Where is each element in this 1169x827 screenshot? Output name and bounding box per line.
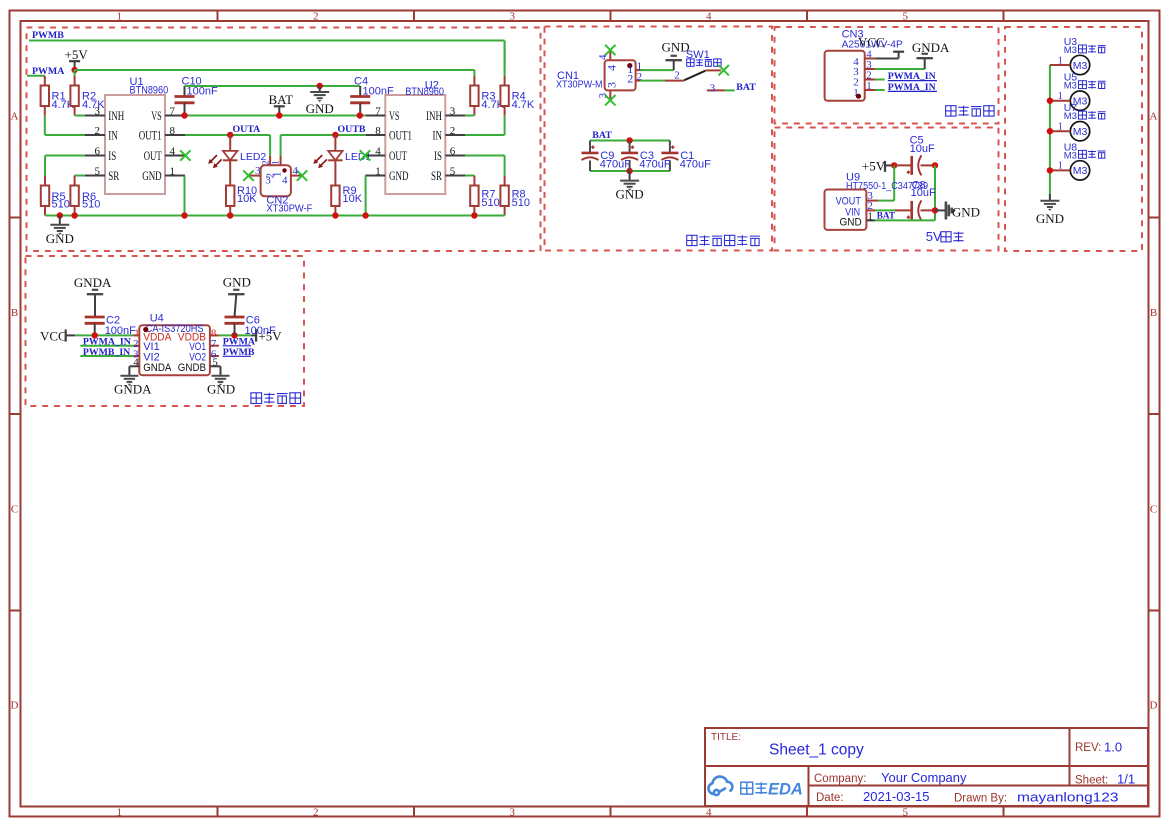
- svg-text:+5V: +5V: [65, 47, 89, 62]
- U9 pin 1 GND: [866, 219, 875, 221]
- chip U4 CA-IS3720HS: [139, 325, 210, 375]
- wire U2 SR to R7: [465, 175, 474, 177]
- svg-text:IS: IS: [434, 149, 442, 163]
- wire R1 to IN: [45, 134, 85, 136]
- svg-text:3: 3: [95, 105, 101, 117]
- U4 pin 6 VO2: [210, 355, 219, 357]
- svg-text:GND: GND: [616, 187, 644, 202]
- U1 pin 6 IS: [85, 155, 105, 157]
- svg-text:M3: M3: [1064, 81, 1077, 92]
- chip U2 BTN8960 body: [385, 95, 445, 194]
- resistor R5: [41, 186, 49, 207]
- svg-text:SR: SR: [108, 169, 119, 183]
- svg-text:GND: GND: [142, 169, 162, 183]
- svg-text:1: 1: [1058, 91, 1063, 102]
- wire R4 to U2 IN: [465, 134, 504, 136]
- svg-text:TITLE:: TITLE:: [711, 732, 741, 743]
- svg-text:1/1: 1/1: [1117, 772, 1135, 787]
- title block frame: [705, 728, 1148, 806]
- svg-text:GND: GND: [223, 275, 251, 290]
- svg-text:D: D: [11, 700, 19, 712]
- svg-text:470uF: 470uF: [600, 159, 631, 171]
- CN2 pin 3: [250, 175, 261, 177]
- svg-text:GNDB: GNDB: [178, 362, 206, 374]
- section box: screw holes: [1005, 27, 1142, 251]
- U4 pin 2 VI1: [80, 345, 134, 347]
- svg-text:+5V: +5V: [862, 159, 886, 174]
- svg-text:C: C: [11, 504, 18, 516]
- svg-text:GNDA: GNDA: [114, 382, 152, 397]
- regulator U9: [825, 190, 867, 230]
- section box: motor driver: [27, 28, 541, 252]
- LED1: [334, 135, 336, 151]
- op-chip U1 BTN8960 body: [105, 95, 165, 194]
- svg-text:BTN8960: BTN8960: [130, 85, 169, 97]
- capacitor C2: [85, 316, 105, 319]
- svg-text:6: 6: [450, 145, 456, 157]
- resistor R6: [70, 186, 78, 207]
- svg-text:2: 2: [313, 11, 319, 23]
- svg-text:XT30PW-M: XT30PW-M: [556, 80, 603, 91]
- svg-text:OUTA: OUTA: [233, 124, 262, 135]
- no-connect X U1 OUT: [180, 150, 190, 160]
- svg-text:470uF: 470uF: [680, 159, 711, 171]
- svg-text:4: 4: [282, 175, 288, 187]
- connector CN1 XT30PW-M: [605, 60, 636, 90]
- svg-text:4: 4: [133, 356, 139, 368]
- ground symbol (screw holes): [1049, 194, 1051, 201]
- wire R3 to U2 INH: [465, 115, 474, 117]
- svg-text:BAT: BAT: [269, 92, 294, 107]
- U2 pin 7 VS: [365, 115, 385, 117]
- capacitor C10: [184, 86, 186, 97]
- svg-text:B: B: [1150, 307, 1157, 319]
- svg-text:VS: VS: [389, 109, 400, 123]
- ground symbol under caps: [629, 171, 631, 181]
- svg-text:100nF: 100nF: [187, 86, 218, 98]
- svg-text:100nF: 100nF: [245, 325, 276, 337]
- svg-text:Sheet_1 copy: Sheet_1 copy: [769, 742, 864, 759]
- svg-text:GNDA: GNDA: [143, 362, 172, 374]
- wire PWMB down to R4: [504, 41, 506, 71]
- U4 pin 1 VDDA: [134, 334, 140, 336]
- wire OUTB: [281, 134, 365, 136]
- svg-text:A: A: [1150, 111, 1158, 123]
- svg-text:GND: GND: [840, 216, 862, 228]
- U2 pin 1 GND: [365, 175, 385, 177]
- svg-text:VCC: VCC: [40, 328, 67, 343]
- svg-text:4: 4: [375, 145, 381, 157]
- svg-text:5: 5: [212, 356, 218, 368]
- no-connect X SW1: [719, 65, 729, 75]
- svg-text:EDA: EDA: [768, 781, 803, 799]
- svg-text:4: 4: [706, 807, 712, 819]
- svg-text:C: C: [1150, 504, 1157, 516]
- U2 pin 5 SR: [445, 175, 465, 177]
- svg-text:GND: GND: [952, 204, 980, 219]
- svg-text:10K: 10K: [237, 193, 257, 205]
- ground symbol bottom left: [59, 216, 61, 225]
- svg-text:1: 1: [117, 807, 123, 819]
- resistor R3: [473, 70, 475, 76]
- svg-text:5: 5: [903, 11, 909, 23]
- U4 pin 8 VDDB: [210, 334, 219, 336]
- section box: 5V regulator: [775, 128, 999, 251]
- svg-text:GND: GND: [306, 101, 334, 116]
- LED2: [229, 135, 231, 151]
- resistor R4: [504, 41, 506, 77]
- svg-text:3: 3: [710, 83, 716, 95]
- wire GND bus bottom: [45, 215, 505, 217]
- U1 pin 4 OUT: [165, 155, 185, 157]
- svg-text:6: 6: [95, 145, 101, 157]
- wire U2 GND down: [365, 176, 367, 216]
- U2 pin 4 OUT: [365, 155, 385, 157]
- svg-text:BAT: BAT: [736, 82, 756, 93]
- CN3 pin 2: [865, 79, 876, 81]
- CN1 pin 2 wire to SW1: [636, 80, 641, 82]
- capacitor C6: [225, 316, 245, 319]
- svg-text:PWMB_IN: PWMB_IN: [83, 347, 130, 358]
- svg-text:1: 1: [866, 81, 871, 92]
- svg-text:BTN8960: BTN8960: [405, 86, 444, 98]
- svg-text:5V: 5V: [926, 229, 942, 244]
- svg-text:OUT1: OUT1: [139, 129, 162, 143]
- wire cap bank top: [590, 140, 670, 142]
- CN1 pin-1 dot: [627, 63, 632, 68]
- svg-text:3: 3: [597, 93, 609, 99]
- svg-text:2: 2: [313, 807, 319, 819]
- U9 pin 2 VIN: [866, 209, 875, 211]
- svg-text:A: A: [11, 111, 19, 123]
- svg-text:mayanlong123: mayanlong123: [1017, 790, 1119, 805]
- wire VDDB to +5V: [219, 334, 252, 336]
- SW1 lever: [684, 71, 705, 81]
- wire +5V horizontal: [75, 69, 475, 71]
- connector CN3: [825, 51, 865, 101]
- svg-text:1: 1: [271, 160, 281, 165]
- resistor R2: [74, 70, 76, 76]
- ground symbol (top middle): [319, 86, 321, 92]
- svg-text:2021-03-15: 2021-03-15: [863, 789, 930, 804]
- svg-text:1: 1: [1058, 122, 1063, 133]
- svg-text:2: 2: [95, 125, 101, 137]
- U1 pin 8 OUT1: [165, 134, 185, 136]
- wire U1 GND down: [184, 176, 186, 216]
- wire U2 IS to R8: [465, 155, 504, 157]
- U2 pin 2 IN: [445, 134, 465, 136]
- wire VDDA: [75, 334, 133, 336]
- U1 pin 1 GND: [165, 175, 185, 177]
- svg-text:IN: IN: [433, 129, 443, 143]
- svg-text:Your Company: Your Company: [881, 770, 967, 785]
- U1 pin 2 IN: [85, 134, 105, 136]
- svg-text:3: 3: [265, 175, 271, 187]
- resistor R9: [331, 186, 339, 207]
- CN2 pin 2: [269, 156, 271, 166]
- svg-text:4.7K: 4.7K: [512, 99, 535, 111]
- U4 pin 5 GNDB: [210, 365, 221, 367]
- capacitor C3 470uF: [629, 141, 631, 153]
- svg-text:4: 4: [706, 11, 712, 23]
- svg-text:2: 2: [674, 70, 680, 82]
- ruler tick marks: [217, 11, 219, 22]
- svg-text:1.0: 1.0: [1104, 740, 1122, 755]
- logo LCEDA: [708, 777, 732, 796]
- svg-text:1: 1: [375, 165, 381, 177]
- svg-text:B: B: [11, 307, 18, 319]
- CN3 pin-1 dot: [856, 94, 861, 99]
- svg-text:M3: M3: [1073, 60, 1088, 72]
- svg-text:3: 3: [510, 807, 516, 819]
- svg-text:Date:: Date:: [816, 792, 844, 804]
- U4 pin 3 VI2: [80, 355, 134, 357]
- svg-text:8: 8: [170, 125, 176, 137]
- section box: signal input: [775, 27, 999, 124]
- wire PWMA: [27, 75, 45, 77]
- svg-text:IN: IN: [108, 129, 118, 143]
- CN1 pin 4 (top): [609, 51, 611, 60]
- svg-text:4: 4: [292, 165, 298, 177]
- svg-text:1: 1: [170, 165, 176, 177]
- U4 pin 7 VO1: [210, 345, 219, 347]
- svg-text:1: 1: [117, 11, 123, 23]
- svg-text:INH: INH: [108, 109, 124, 123]
- capacitor C5: [894, 164, 911, 166]
- svg-text:10uF: 10uF: [911, 187, 936, 199]
- svg-text:2: 2: [261, 160, 271, 165]
- wire +5V node: [891, 162, 897, 168]
- svg-text:470uF: 470uF: [639, 159, 670, 171]
- svg-text:5: 5: [95, 165, 101, 177]
- svg-text:BAT: BAT: [592, 130, 612, 141]
- svg-text:1: 1: [867, 210, 873, 222]
- svg-text:GND: GND: [1036, 211, 1064, 226]
- svg-text:GNDA: GNDA: [74, 275, 112, 290]
- svg-text:Drawn By:: Drawn By:: [954, 793, 1007, 805]
- power flag +5V (isolation): [252, 334, 257, 336]
- svg-text:4: 4: [605, 65, 619, 71]
- svg-text:VCC: VCC: [858, 35, 885, 50]
- SW1 pin 3 to BAT: [707, 89, 725, 91]
- svg-text:SR: SR: [431, 169, 442, 183]
- svg-text:M3: M3: [1064, 150, 1077, 161]
- U4 pin 4 GNDA: [129, 365, 139, 367]
- svg-text:1: 1: [1058, 55, 1063, 66]
- svg-text:510: 510: [481, 197, 499, 209]
- svg-text:M3: M3: [1064, 111, 1077, 122]
- wire U1 SR to R6: [75, 175, 85, 177]
- resistor R7: [470, 186, 478, 207]
- svg-text:GND: GND: [46, 231, 74, 246]
- U2 pin 6 IS: [445, 155, 465, 157]
- svg-text:2: 2: [866, 71, 871, 82]
- svg-text:2: 2: [637, 71, 643, 83]
- CN1 pin 1 wire to GND: [636, 69, 641, 71]
- capacitor C9 470uF: [589, 141, 591, 153]
- svg-text:7: 7: [375, 105, 381, 117]
- U2 pin 3 INH: [445, 115, 465, 117]
- svg-text:GNDA: GNDA: [912, 40, 950, 55]
- capacitor C1 470uF: [669, 141, 671, 153]
- svg-text:510: 510: [82, 199, 100, 211]
- svg-text:7: 7: [170, 105, 176, 117]
- U1 pin 3 INH: [85, 115, 105, 117]
- svg-text:VS: VS: [151, 109, 162, 123]
- resistor R8: [500, 186, 508, 207]
- wire cap bank bottom: [590, 170, 670, 172]
- svg-text:REV:: REV:: [1075, 742, 1101, 754]
- svg-text:3: 3: [255, 165, 261, 177]
- svg-text:BAT: BAT: [877, 212, 896, 222]
- junction +5V node: [71, 67, 77, 73]
- svg-text:3: 3: [605, 82, 619, 88]
- U1 pin 5 SR: [85, 175, 105, 177]
- CN2 pin 1: [280, 156, 282, 166]
- svg-text:4: 4: [866, 50, 872, 61]
- resistor R1: [44, 76, 46, 86]
- U9 pin 3 VOUT: [866, 200, 878, 202]
- connector CN2 XT30PW-F: [261, 165, 291, 196]
- section label signal input: [946, 106, 995, 116]
- svg-text:OUTB: OUTB: [338, 124, 366, 135]
- wire right vertical (5V reg): [934, 165, 936, 220]
- svg-text:4: 4: [597, 54, 609, 60]
- svg-text:3: 3: [866, 60, 871, 71]
- svg-text:4: 4: [170, 145, 176, 157]
- svg-text:510: 510: [52, 199, 70, 211]
- wire screw-hole gnd vertical: [1049, 65, 1051, 194]
- wire R2 to INH: [75, 115, 85, 117]
- section box: power input: [545, 27, 773, 251]
- svg-text:5: 5: [450, 165, 456, 177]
- svg-text:OUT: OUT: [144, 149, 162, 163]
- svg-text:PWMB: PWMB: [32, 30, 64, 41]
- svg-text:2: 2: [450, 125, 456, 137]
- wire VS net: [185, 115, 366, 117]
- svg-text:OUT: OUT: [389, 149, 407, 163]
- svg-text:3: 3: [510, 11, 516, 23]
- svg-text:Sheet:: Sheet:: [1075, 775, 1108, 787]
- svg-text:3: 3: [450, 105, 456, 117]
- svg-text:10uF: 10uF: [910, 143, 935, 155]
- svg-text:D: D: [1150, 700, 1158, 712]
- svg-text:INH: INH: [426, 109, 442, 123]
- svg-text:1: 1: [1058, 161, 1063, 172]
- CN3 pin 4: [865, 58, 876, 60]
- svg-text:IS: IS: [108, 149, 116, 163]
- junction gnd-top: [317, 83, 323, 89]
- no-connect X U2 OUT: [360, 150, 370, 160]
- svg-text:M3: M3: [1073, 165, 1088, 177]
- wire PWMB horizontal: [29, 40, 505, 42]
- U1 pin 7 VS: [165, 115, 185, 117]
- section label signal isolation: [251, 393, 301, 404]
- wire OUTA: [185, 134, 270, 136]
- section box: signal isolation: [26, 256, 305, 406]
- wire decoupling gnd top: [185, 85, 361, 87]
- svg-text:510: 510: [512, 197, 530, 209]
- CN3 pin 3 to GNDA: [865, 68, 876, 70]
- CN1 pin 3 (bottom): [609, 90, 611, 99]
- svg-text:OUT1: OUT1: [389, 129, 412, 143]
- CN3 pin 1: [865, 89, 876, 91]
- section label power input: [687, 235, 760, 245]
- svg-text:Company:: Company:: [814, 773, 866, 785]
- svg-text:M3: M3: [1073, 126, 1088, 138]
- CN2 pin 4: [291, 175, 302, 177]
- svg-text:8: 8: [375, 125, 381, 137]
- svg-text:GND: GND: [389, 169, 409, 183]
- resistor R10: [226, 186, 234, 207]
- U2 pin 8 OUT1: [365, 134, 385, 136]
- svg-text:5: 5: [903, 807, 909, 819]
- svg-text:2: 2: [627, 71, 633, 85]
- svg-text:10K: 10K: [343, 193, 363, 205]
- ground flag (5V reg): [935, 209, 946, 211]
- svg-text:M3: M3: [1064, 45, 1077, 56]
- svg-text:XT30PW-F: XT30PW-F: [266, 202, 312, 214]
- wire U1 IS to R5: [45, 155, 85, 157]
- capacitor C4: [359, 86, 361, 97]
- svg-text:GND: GND: [207, 382, 235, 397]
